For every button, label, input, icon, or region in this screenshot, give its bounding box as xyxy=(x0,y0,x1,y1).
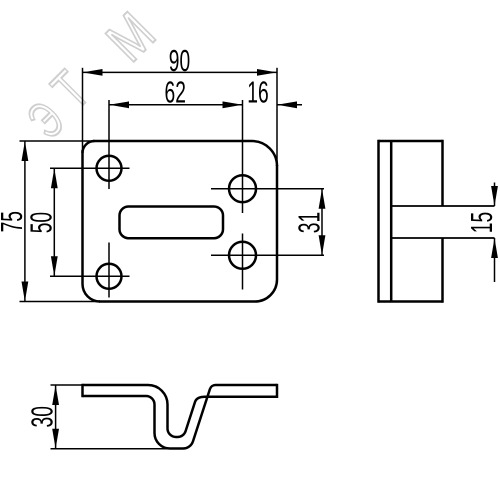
dimension 31 line xyxy=(321,189,323,256)
dimension 31 arrow top xyxy=(319,189,326,209)
bottom view right end cap xyxy=(276,384,279,398)
bottom view sheet bottom-surface line xyxy=(83,385,278,449)
svg-text:50: 50 xyxy=(25,212,59,233)
plate left edge xyxy=(81,150,84,284)
plate corner arc bottom-right xyxy=(255,280,277,302)
hole bottom-right circle xyxy=(229,242,256,269)
dimension 62 arrow left xyxy=(109,101,129,108)
plate bottom edge xyxy=(99,300,255,303)
svg-text:30: 30 xyxy=(26,406,60,427)
dimension 62 line xyxy=(109,104,243,106)
plate top edge xyxy=(93,140,252,143)
plate right edge xyxy=(276,165,279,280)
dimension 30 arrow bottom xyxy=(52,429,59,449)
plate corner arc bottom-left xyxy=(83,284,101,302)
hole top-left circle xyxy=(97,156,122,181)
bottom view left end cap xyxy=(81,384,84,397)
hole bottom-left crosshair horizontal xyxy=(50,275,130,277)
svg-text:16: 16 xyxy=(247,76,268,110)
dimension 75 line xyxy=(24,141,26,302)
dimension 50 line xyxy=(53,168,55,276)
side view inner bend line xyxy=(390,141,393,302)
dimension 75 arrow bottom xyxy=(22,282,29,302)
svg-text:15: 15 xyxy=(466,212,500,233)
dimension 50 arrow bottom xyxy=(51,256,58,276)
extension line top horizontal (75 dim / plate top edge) xyxy=(20,140,96,142)
hole top-right crosshair vertical xyxy=(242,100,244,213)
side view top edge xyxy=(379,140,443,143)
dimension 90 line xyxy=(83,71,278,73)
extension line bottom horizontal (75 dim / plate bottom edge) xyxy=(20,301,102,303)
hole top-left crosshair vertical xyxy=(108,100,110,189)
dimension 30 top extension line xyxy=(51,384,85,386)
extension line right vertical (90/16 dim / plate right edge) xyxy=(276,68,278,168)
hole top-right circle xyxy=(229,175,256,202)
hole bottom-right crosshair horizontal xyxy=(211,254,324,256)
dimension 30 bottom extension line (tangent to U bottom) xyxy=(51,448,171,450)
side view tab bottom edge + extension xyxy=(391,237,494,239)
svg-text:М: М xyxy=(94,0,167,73)
hole bottom-right crosshair vertical xyxy=(242,234,244,290)
dimension 75 arrow top xyxy=(22,141,29,161)
dimension 50 arrow top xyxy=(51,168,58,188)
hole bottom-left crosshair vertical xyxy=(108,243,110,298)
dimension 62 arrow right xyxy=(223,101,243,108)
plate corner arc top-left xyxy=(83,141,95,153)
dimension 90 arrow right xyxy=(257,69,277,76)
svg-text:62: 62 xyxy=(165,76,186,110)
side view right edge upper segment xyxy=(441,140,444,206)
slot rounded rectangle xyxy=(120,207,224,239)
side view left edge xyxy=(377,140,380,303)
svg-text:31: 31 xyxy=(293,212,327,233)
side view tab top edge + extension xyxy=(391,205,494,207)
svg-text:90: 90 xyxy=(169,44,190,78)
extension line left vertical (90 dim / plate left edge) xyxy=(82,68,84,153)
dimension 15 line upper segment with arrow down xyxy=(494,183,496,207)
dimension 30 line xyxy=(55,385,57,449)
hole top-left crosshair horizontal xyxy=(50,167,130,169)
dimension 15 line lower segment with arrow up xyxy=(494,238,496,282)
dimension 30 arrow top xyxy=(52,385,59,405)
hole top-right crosshair horizontal xyxy=(211,188,324,190)
side view bottom edge xyxy=(379,300,443,303)
side view right edge lower segment xyxy=(441,238,444,303)
plate corner arc top-right xyxy=(252,141,277,166)
dimension 90 arrow left xyxy=(83,69,103,76)
dimension 31 arrow bottom xyxy=(319,235,326,255)
hole bottom-left circle xyxy=(97,264,122,289)
bottom view sheet top-surface line xyxy=(83,385,278,437)
dimension 16 arrow (outside right) xyxy=(277,104,302,106)
